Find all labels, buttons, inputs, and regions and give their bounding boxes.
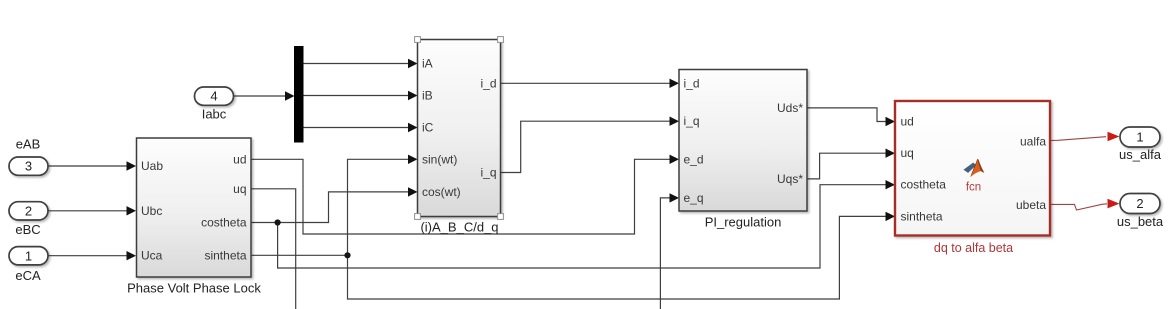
wire i_d to PI i_d — [501, 82, 672, 84]
wire demux to iC — [304, 127, 410, 129]
svg-text:1: 1 — [1136, 129, 1143, 144]
svg-text:iB: iB — [422, 89, 433, 103]
svg-text:(i)A_B_C/d_q: (i)A_B_C/d_q — [420, 220, 498, 235]
svg-text:e_d: e_d — [684, 152, 704, 166]
arrow into dq uq — [886, 149, 896, 158]
svg-text:i_q: i_q — [684, 114, 700, 128]
svg-text:4: 4 — [210, 89, 217, 104]
wire Iabc port 4 to demux — [234, 95, 287, 97]
svg-text:iA: iA — [422, 57, 433, 71]
block dq to alfa beta — [895, 101, 1050, 236]
svg-text:us_alfa: us_alfa — [1119, 147, 1162, 162]
arrow into PI e_d — [670, 155, 680, 164]
svg-text:Uds*: Uds* — [777, 101, 803, 115]
arrow red into us_beta — [1108, 199, 1120, 209]
arrow into Uab — [127, 161, 137, 170]
svg-text:cos(wt): cos(wt) — [422, 185, 461, 199]
svg-text:us_beta: us_beta — [1117, 214, 1164, 229]
arrow into PI i_q — [670, 117, 680, 126]
arrow into iB — [408, 91, 418, 100]
arrow into iC — [408, 123, 418, 132]
arrow into sin(wt) — [408, 155, 418, 164]
svg-text:ualfa: ualfa — [1020, 134, 1046, 148]
wire i_q to PI i_q — [501, 121, 672, 172]
wire demux to iA — [304, 63, 410, 65]
svg-text:ubeta: ubeta — [1016, 198, 1046, 212]
svg-text:iC: iC — [422, 121, 434, 135]
svg-text:i_q: i_q — [480, 166, 496, 180]
svg-text:Uab: Uab — [141, 159, 163, 173]
svg-text:sin(wt): sin(wt) — [422, 152, 457, 166]
svg-text:uq: uq — [233, 182, 246, 196]
svg-text:1: 1 — [25, 248, 32, 263]
wire ubeta red — [1050, 204, 1107, 210]
input port 2 — [9, 202, 48, 220]
output port 2 — [1120, 194, 1160, 214]
block (i)A_B_C/d_q — [418, 40, 501, 217]
wire eCA port 1 to Uca — [49, 255, 128, 257]
junction node costheta — [275, 219, 281, 225]
input port 1 — [9, 247, 48, 265]
wire ualfa red — [1050, 137, 1106, 141]
selection handle bottom-right — [498, 214, 504, 220]
svg-text:2: 2 — [1136, 196, 1143, 211]
arrow into dq ud — [886, 117, 896, 126]
svg-text:sintheta: sintheta — [901, 209, 943, 223]
svg-text:ud: ud — [233, 152, 246, 166]
matlab fcn logo — [964, 159, 985, 178]
svg-text:sintheta: sintheta — [204, 248, 246, 262]
svg-text:Iabc: Iabc — [202, 107, 227, 122]
svg-text:dq to alfa beta: dq to alfa beta — [934, 241, 1013, 255]
arrow into Ubc — [127, 206, 137, 215]
wire sintheta to sin(wt) — [251, 159, 409, 255]
selection handle bottom-left — [415, 214, 421, 220]
svg-text:ud: ud — [901, 115, 914, 129]
arrow into PI e_q — [670, 193, 680, 202]
svg-text:uq: uq — [901, 146, 914, 160]
svg-text:3: 3 — [25, 159, 32, 174]
svg-text:PI_regulation: PI_regulation — [705, 215, 782, 230]
block PI_regulation — [679, 70, 807, 212]
arrow red into us_alfa — [1108, 132, 1120, 142]
wire costheta branch to dq costheta — [278, 185, 887, 268]
wire costheta to cos(wt) — [251, 192, 409, 223]
svg-text:i_d: i_d — [684, 76, 700, 90]
block Phase Volt Phase Lock — [137, 138, 252, 277]
wire uq down to bottom edge — [251, 189, 296, 309]
arrow into cos(wt) — [408, 187, 418, 196]
svg-text:2: 2 — [25, 203, 32, 218]
svg-text:Ubc: Ubc — [141, 204, 162, 218]
wire Uqs* to dq uq — [807, 153, 887, 179]
svg-text:Uca: Uca — [141, 249, 163, 263]
wire sintheta branch to dq sintheta — [348, 216, 888, 299]
arrow into PI i_d — [670, 79, 680, 88]
input port 3 — [9, 157, 48, 175]
svg-text:eAB: eAB — [16, 137, 41, 152]
svg-text:Uqs*: Uqs* — [777, 172, 803, 186]
output port 1 — [1120, 127, 1160, 147]
arrow into dq sintheta — [886, 212, 896, 221]
wire eAB port 3 to Uab — [49, 165, 128, 167]
wire eBC port 2 to Ubc — [49, 210, 128, 212]
wire ud to e_d — [251, 159, 671, 234]
svg-text:fcn: fcn — [966, 182, 981, 194]
demux Iabc — [294, 46, 304, 143]
arrow into demux — [285, 91, 295, 100]
wire Uds* to dq ud — [807, 108, 887, 122]
arrow into Uca — [127, 251, 137, 260]
svg-text:eBC: eBC — [15, 222, 40, 237]
selection handle top-right — [498, 37, 504, 43]
svg-text:i_d: i_d — [480, 76, 496, 90]
input port 4 — [195, 87, 234, 105]
svg-text:Phase Volt Phase Lock: Phase Volt Phase Lock — [127, 281, 261, 296]
wire e_q riser from bottom edge — [660, 198, 671, 309]
svg-text:e_q: e_q — [684, 191, 704, 205]
svg-text:eCA: eCA — [15, 268, 41, 283]
wire demux to iB — [304, 95, 410, 97]
arrow into iA — [408, 59, 418, 68]
svg-text:costheta: costheta — [201, 216, 247, 230]
arrowheads black — [127, 59, 896, 261]
selection handle top-left — [415, 37, 421, 43]
svg-text:costheta: costheta — [901, 178, 947, 192]
arrow into dq costheta — [886, 180, 896, 189]
junction node sintheta — [344, 252, 350, 258]
